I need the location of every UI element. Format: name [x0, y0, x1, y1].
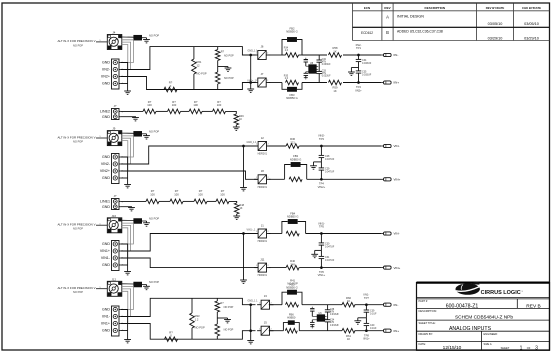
svg-text:GND: GND [102, 115, 110, 119]
svg-text:IIN1+: IIN1+ [363, 337, 370, 341]
svg-text:0.047UF: 0.047UF [325, 259, 335, 262]
svg-text:IIN1+: IIN1+ [101, 322, 110, 326]
svg-text:OF: OF [527, 346, 531, 350]
svg-text:R35: R35 [284, 75, 289, 77]
svg-text:J5: J5 [264, 320, 267, 324]
svg-text:03/05/10: 03/05/10 [524, 22, 539, 26]
svg-text:TP7: TP7 [364, 296, 369, 300]
svg-text:NO POP: NO POP [73, 139, 83, 143]
svg-text:GND: GND [102, 329, 110, 333]
svg-text:VIN1+: VIN1+ [100, 249, 110, 253]
svg-text:REV B: REV B [526, 304, 540, 310]
svg-text:GND: GND [102, 205, 110, 209]
svg-text:J8: J8 [261, 169, 264, 173]
svg-text:GND: GND [102, 263, 110, 267]
svg-text:CHK BY/DATE: CHK BY/DATE [522, 6, 541, 10]
svg-text:GND: GND [102, 242, 110, 246]
svg-text:100: 100 [193, 103, 198, 107]
svg-text:NDB50 G: NDB50 G [286, 286, 298, 290]
svg-text:SIZE A: SIZE A [484, 342, 492, 346]
svg-text:NO POP: NO POP [73, 290, 83, 294]
svg-text:1K: 1K [239, 207, 242, 210]
svg-text:0.047UF: 0.047UF [325, 170, 335, 173]
svg-text:100: 100 [217, 103, 222, 107]
svg-text:VIN2+: VIN2+ [100, 169, 110, 173]
svg-text:HDR2X1: HDR2X1 [258, 274, 268, 277]
svg-text:0.047UF: 0.047UF [325, 245, 335, 248]
svg-text:NO POP: NO POP [149, 130, 159, 134]
svg-text:VIN1-: VIN1- [101, 256, 111, 260]
svg-text:DESCRIPTION: DESCRIPTION [425, 6, 446, 10]
svg-text:100: 100 [172, 103, 177, 107]
svg-text:NO POP: NO POP [224, 329, 234, 332]
svg-text:NDB50 G: NDB50 G [290, 158, 302, 162]
svg-text:1K: 1K [347, 337, 350, 341]
svg-text:03/05/10: 03/05/10 [488, 22, 503, 26]
svg-text:ECN: ECN [364, 6, 370, 10]
svg-text:GND_1 1: GND_1 1 [248, 300, 259, 303]
svg-text:GND: GND [102, 308, 110, 312]
svg-text:TP3: TP3 [319, 137, 324, 141]
svg-text:J1: J1 [261, 223, 264, 227]
svg-text:J9: J9 [112, 127, 115, 131]
svg-text:IIN2+: IIN2+ [355, 89, 362, 93]
svg-text:IIN1-: IIN1- [102, 315, 111, 319]
svg-text:VIN2-: VIN2- [101, 162, 111, 166]
svg-text:NO POP: NO POP [73, 227, 83, 231]
svg-text:249: 249 [290, 262, 295, 266]
svg-text:DATE:: DATE: [419, 342, 427, 346]
svg-text:ALT IN-X FOR PRECISION V: ALT IN-X FOR PRECISION V [58, 286, 96, 290]
svg-text:J11: J11 [260, 257, 265, 261]
svg-text:ALT IN-X FOR PRECISION V: ALT IN-X FOR PRECISION V [58, 135, 96, 139]
svg-text:VIN1+: VIN1+ [318, 273, 326, 277]
svg-text:IIN2-: IIN2- [102, 68, 111, 72]
svg-text:0.1UF: 0.1UF [370, 327, 377, 330]
svg-text:J2: J2 [261, 136, 264, 140]
svg-text:1.2: 1.2 [195, 317, 199, 321]
svg-text:NDB50 G: NDB50 G [287, 215, 299, 219]
svg-text:R61: R61 [197, 60, 202, 64]
svg-text:1K: 1K [347, 299, 350, 303]
svg-text:J3: J3 [264, 294, 267, 298]
svg-text:J4: J4 [112, 31, 115, 35]
svg-text:R34: R34 [284, 47, 289, 49]
svg-text:DRAWN BY:: DRAWN BY: [419, 332, 434, 336]
svg-text:J?: J? [114, 104, 117, 108]
svg-text:GND: GND [102, 61, 110, 65]
svg-text:1K: 1K [333, 89, 336, 93]
svg-text:3: 3 [535, 346, 538, 352]
svg-text:J7: J7 [261, 72, 264, 76]
svg-text:NO POP: NO POP [149, 33, 159, 37]
svg-text:TP1: TP1 [356, 46, 361, 50]
svg-text:0.033UF: 0.033UF [322, 64, 331, 66]
svg-text:CIRRUS LOGIC: CIRRUS LOGIC [481, 290, 521, 296]
svg-text:GND: GND [102, 155, 110, 159]
svg-text:0.047UF: 0.047UF [325, 158, 335, 161]
svg-text:NO POP: NO POP [224, 55, 234, 58]
svg-text:03/29/10: 03/29/10 [488, 37, 503, 41]
svg-text:J?: J? [114, 194, 117, 198]
svg-text:REV: REV [384, 6, 390, 10]
svg-text:VIN-: VIN- [394, 144, 400, 148]
svg-text:VIN+: VIN+ [394, 266, 401, 270]
svg-text:TP5: TP5 [319, 225, 324, 229]
svg-text:0.033UF: 0.033UF [330, 325, 339, 327]
svg-text:1K: 1K [239, 118, 242, 121]
svg-text:LINE2: LINE2 [100, 110, 110, 114]
svg-text:ALT IN-X FOR PRECISION V: ALT IN-X FOR PRECISION V [58, 223, 96, 227]
svg-text:REV BY/DATE: REV BY/DATE [486, 6, 505, 10]
svg-text:100: 100 [198, 193, 203, 197]
svg-text:LINE1: LINE1 [100, 200, 110, 204]
svg-text:NO POP: NO POP [224, 306, 234, 309]
svg-text:VIN1-_1: VIN1-_1 [247, 228, 256, 231]
svg-text:12: 12 [197, 63, 200, 67]
svg-text:ECD612: ECD612 [361, 31, 373, 35]
svg-text:HDR2X1: HDR2X1 [258, 186, 268, 189]
svg-text:0.033UF: 0.033UF [362, 62, 372, 65]
svg-text:100: 100 [220, 193, 225, 197]
svg-text:NDB50 G: NDB50 G [286, 96, 298, 100]
svg-text:NO POP: NO POP [149, 280, 159, 284]
svg-text:H0B50: H0B50 [287, 316, 296, 320]
svg-text:NO POP: NO POP [73, 43, 83, 47]
svg-text:IIN+: IIN+ [394, 329, 400, 333]
svg-text:VIN2+: VIN2+ [318, 185, 326, 189]
svg-text:03/29/10: 03/29/10 [524, 37, 539, 41]
svg-text:GND: GND [102, 176, 110, 180]
svg-text:INITIAL DESIGN: INITIAL DESIGN [397, 15, 424, 19]
svg-text:221: 221 [290, 140, 295, 144]
svg-text:J12: J12 [112, 277, 117, 281]
svg-text:NO POP: NO POP [149, 217, 159, 221]
svg-text:ENGINEER:: ENGINEER: [484, 332, 499, 336]
svg-text:HDR2X1: HDR2X1 [258, 240, 268, 243]
svg-text:SHEET: SHEET [501, 346, 510, 350]
svg-text:0.033UF: 0.033UF [330, 314, 339, 316]
svg-text:ADDED U5,C32,C36,C37,C38: ADDED U5,C32,C36,C37,C38 [397, 30, 443, 34]
svg-text:IIN2+: IIN2+ [101, 75, 110, 79]
svg-text:100: 100 [150, 193, 155, 197]
svg-text:100: 100 [147, 103, 152, 107]
svg-text:VIN-: VIN- [394, 232, 400, 236]
svg-text:J6: J6 [261, 45, 264, 49]
svg-text:1: 1 [520, 346, 523, 352]
svg-text:VIN+: VIN+ [394, 178, 401, 182]
svg-text:R33: R33 [195, 314, 200, 318]
svg-text:0.033UF: 0.033UF [362, 74, 372, 77]
svg-text:ANALOG INPUTS: ANALOG INPUTS [449, 326, 492, 332]
svg-text:IIN-: IIN- [394, 303, 399, 307]
svg-text:GND: GND [102, 82, 110, 86]
svg-text:NO POP: NO POP [224, 77, 234, 80]
svg-text:12/15/10: 12/15/10 [443, 345, 462, 351]
svg-text:NO POP: NO POP [197, 72, 207, 76]
svg-text:A: A [386, 15, 389, 20]
svg-text:100: 100 [174, 193, 179, 197]
svg-text:SHEET TITLE:: SHEET TITLE: [419, 321, 436, 325]
svg-text:1K: 1K [333, 50, 336, 54]
svg-text:B: B [386, 30, 389, 35]
svg-text:DESCRIPTION:: DESCRIPTION: [419, 309, 438, 313]
svg-text:600-00478-Z1: 600-00478-Z1 [446, 303, 479, 309]
svg-text:0.033UF: 0.033UF [322, 76, 331, 78]
svg-text:IIN+: IIN+ [394, 81, 400, 85]
svg-text:NO POP: NO POP [195, 326, 205, 330]
svg-text:SCHEM CDB5484U-Z NPb: SCHEM CDB5484U-Z NPb [455, 315, 513, 321]
svg-text:HDR2X1: HDR2X1 [258, 153, 268, 156]
svg-text:ALT IN-X FOR PRECISION V: ALT IN-X FOR PRECISION V [58, 39, 96, 43]
svg-text:0.1UF: 0.1UF [370, 313, 377, 316]
svg-text:J10: J10 [112, 214, 117, 218]
svg-text:IIN-: IIN- [394, 53, 399, 57]
svg-text:NDB50 G: NDB50 G [286, 30, 298, 34]
svg-text:PART #: PART # [419, 299, 428, 303]
